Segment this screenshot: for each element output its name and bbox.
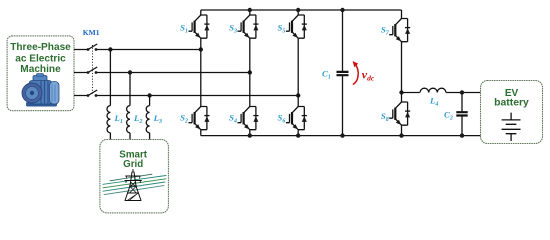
wire L3 drop: [149, 96, 151, 106]
svg-text:L4: L4: [429, 96, 438, 108]
wire L4 to battery: [446, 92, 480, 94]
wire L2 drop: [129, 73, 131, 106]
leg 4 wire: [401, 10, 403, 136]
phase wire B: [74, 72, 250, 74]
Smart Grid box: [100, 140, 168, 213]
svg-text:S6: S6: [278, 112, 286, 124]
svg-text:KM1: KM1: [83, 28, 100, 37]
svg-text:C1: C1: [322, 68, 331, 80]
svg-text:L3: L3: [153, 113, 162, 125]
svg-text:C2: C2: [444, 109, 453, 121]
svg-text:ac Electric: ac Electric: [15, 53, 66, 64]
leg 2 wire: [249, 10, 251, 136]
node C1 bottom: [340, 133, 344, 137]
inductor L1: [107, 106, 110, 133]
transistor S6: [278, 107, 307, 130]
node L1 tap: [108, 47, 112, 51]
svg-text:Grid: Grid: [123, 159, 143, 170]
node C2 tap: [460, 90, 464, 94]
node C1 top: [340, 8, 344, 12]
vdc arrow: [353, 64, 358, 85]
KM1 dashed linkage: [92, 45, 94, 95]
node L2 tap: [128, 70, 132, 74]
capacitor C2: [461, 93, 463, 136]
inductor L4: [420, 88, 446, 92]
transistor S2: [180, 107, 209, 130]
node leg4 bottom: [399, 133, 403, 137]
bottom dc rail: [201, 135, 481, 137]
phase wire C: [74, 95, 298, 97]
KM1 contact C: [88, 90, 97, 96]
svg-text:S3: S3: [229, 23, 237, 35]
svg-text:S5: S5: [278, 23, 286, 35]
svg-text:Three-Phase: Three-Phase: [10, 42, 71, 53]
svg-text:S4: S4: [229, 112, 237, 124]
Three-Phase ac Electric Machine box: [7, 36, 74, 111]
phase wire A: [74, 49, 201, 51]
leg 3 wire: [297, 10, 299, 136]
svg-text:S7: S7: [381, 25, 390, 37]
svg-text:L1: L1: [114, 113, 123, 125]
node C2 bottom: [460, 133, 464, 137]
transistor S3: [229, 15, 258, 38]
transistor S1: [180, 15, 209, 38]
svg-text:L2: L2: [133, 113, 142, 125]
svg-text:vdc: vdc: [362, 67, 375, 82]
node phase B / leg2: [248, 70, 252, 74]
svg-text:S8: S8: [381, 111, 389, 123]
node leg2 top: [248, 8, 252, 12]
KM1 contact B: [88, 67, 97, 73]
capacitor C1: [342, 10, 344, 136]
svg-text:S1: S1: [180, 23, 188, 35]
node L3 tap: [147, 93, 151, 97]
transmission tower icon: [103, 170, 166, 201]
svg-text:Machine: Machine: [20, 64, 61, 75]
motor icon: [22, 74, 59, 107]
EV battery box: [481, 81, 543, 144]
wire L2 tail: [129, 133, 131, 140]
top dc rail: [201, 9, 402, 11]
svg-text:battery: battery: [494, 97, 529, 108]
transistor S7: [381, 19, 410, 42]
inductor L3: [146, 106, 149, 133]
node phase C / leg3: [296, 93, 300, 97]
node leg4 mid: [399, 90, 403, 94]
node leg2 bottom: [248, 133, 252, 137]
transistor S8: [381, 102, 410, 125]
wire L1 tail: [109, 133, 111, 140]
wire to L4: [402, 92, 420, 94]
wire L3 tail: [149, 133, 151, 140]
leg 1 wire: [200, 10, 202, 136]
wire L1 drop: [109, 50, 111, 106]
svg-text:S2: S2: [180, 112, 188, 124]
inductor L2: [127, 106, 130, 133]
node phase A / leg1: [199, 47, 203, 51]
node leg3 bottom: [296, 133, 300, 137]
transistor S4: [229, 107, 258, 130]
KM1 contact A: [88, 44, 97, 50]
transistor S5: [278, 15, 307, 38]
node leg3 top: [296, 8, 300, 12]
battery symbol: [502, 113, 521, 141]
